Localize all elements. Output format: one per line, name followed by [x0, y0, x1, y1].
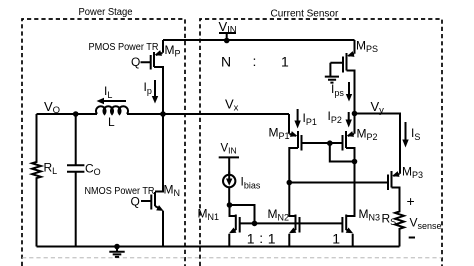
resistor RS: [395, 211, 404, 247]
ground MPS gate: [325, 63, 339, 83]
svg-text:+: +: [407, 193, 415, 209]
svg-text::: :: [259, 230, 263, 246]
svg-text:1: 1: [268, 231, 276, 247]
junction MP2 drain: [352, 159, 358, 165]
junction Vy node: [352, 111, 358, 117]
transistor MP1 (PMOS mirrored): [289, 114, 330, 152]
current arrow Ips: [348, 82, 350, 95]
junction VIN rail: [224, 38, 230, 44]
capacitor CO: [67, 114, 84, 247]
svg-text:1: 1: [281, 54, 289, 70]
ground main: [114, 244, 120, 250]
current arrow IP2: [348, 112, 350, 120]
current source Ibias: [223, 175, 235, 187]
wire VIN rail: [163, 39, 355, 41]
wire Vy: [355, 114, 401, 156]
transistor MN2 (NMOS): [289, 215, 299, 247]
svg-text:L: L: [108, 115, 115, 129]
current sensor dashed box: [200, 19, 442, 266]
junction CO tap: [73, 111, 79, 117]
svg-text:NMOS Power TR: NMOS Power TR: [85, 186, 155, 197]
junction NMOS gate line: [252, 221, 258, 227]
junction MP1 drain / gate line: [287, 180, 293, 186]
transistor MP2 (PMOS): [330, 114, 355, 153]
wire NMOS gate line: [240, 222, 343, 224]
wire diode link MP2: [330, 143, 355, 162]
current arrow Ip: [154, 80, 156, 97]
power stage dashed box: [22, 19, 185, 266]
VIN bias bar: [219, 157, 239, 174]
faint box bottoms: [22, 257, 442, 259]
svg-text:N: N: [221, 54, 231, 70]
current arrow IS: [405, 122, 407, 140]
transistor MPS (PMOS): [330, 40, 354, 75]
current arrow IP1: [297, 109, 299, 121]
svg-text:PMOS Power TR: PMOS Power TR: [89, 42, 159, 53]
svg-text::: :: [253, 53, 257, 69]
wire Vx horizontal: [127, 113, 289, 115]
current arrow IL: [104, 100, 127, 102]
wire diode link MN1: [230, 205, 255, 223]
transistor MN1 (NMOS): [229, 205, 239, 247]
wire MPS drain to Vy: [354, 75, 356, 114]
wire MP1 drain to MN2 drain: [289, 152, 295, 216]
transistor MP3 (PMOS): [388, 155, 400, 211]
svg-text:1: 1: [247, 231, 255, 247]
node Vx junction: [160, 111, 166, 117]
svg-text:Q: Q: [131, 195, 140, 209]
wire bottom rail: [37, 246, 400, 248]
transistor MN3 (NMOS mirrored): [342, 215, 352, 247]
inductor L: [96, 106, 128, 114]
wire MP drain to Vx: [162, 70, 164, 114]
wire left branch with resistor RL: [32, 114, 41, 247]
transistor MP (PMOS): [141, 40, 164, 70]
svg-text:Q: Q: [131, 55, 140, 69]
svg-text:Current Sensor: Current Sensor: [271, 8, 339, 19]
transistor MN (NMOS): [141, 188, 163, 247]
junction Ibias node: [227, 202, 233, 208]
wire gate line to MP3: [289, 182, 388, 184]
VIN supply bar and stem: [219, 33, 236, 41]
wire VO horizontal: [37, 113, 98, 115]
svg-text:Power Stage: Power Stage: [79, 7, 133, 18]
junction PMOS gates: [327, 140, 333, 146]
label minus: [409, 237, 415, 239]
wire Vx to MN drain: [162, 114, 164, 188]
svg-text:1: 1: [332, 231, 340, 247]
wire MP2 drain to MN3 drain: [346, 152, 354, 216]
